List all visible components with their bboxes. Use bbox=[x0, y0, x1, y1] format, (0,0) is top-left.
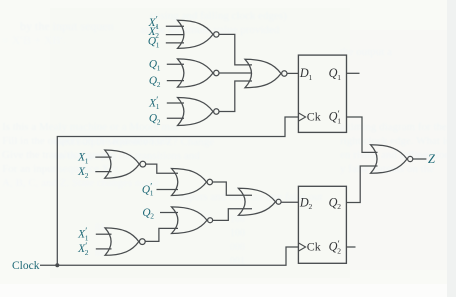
NOR gate G5 (X1 X2) bbox=[105, 150, 146, 178]
NOR gate G3 (X1' Q2) bbox=[178, 98, 220, 126]
wire G5 out to G6 top bbox=[146, 164, 178, 173]
NOR gate G6 bbox=[172, 169, 213, 196]
svg-text:2: 2 bbox=[85, 248, 89, 257]
flip-flop U1 (D1/Q1) bbox=[298, 55, 346, 132]
svg-text:000: 000 bbox=[230, 242, 245, 253]
label Q1 (G1 input) bbox=[148, 36, 160, 50]
svg-text:Clock: Clock bbox=[12, 260, 40, 272]
junction clock node bbox=[55, 263, 59, 267]
svg-text:1: 1 bbox=[337, 73, 341, 82]
svg-text:Q: Q bbox=[142, 184, 150, 196]
svg-text:2: 2 bbox=[337, 202, 341, 211]
wire G1 out to G4 top bbox=[219, 34, 252, 65]
svg-text:1: 1 bbox=[309, 73, 313, 82]
flip-flop U2 (D2/Q2) bbox=[298, 186, 346, 263]
svg-text:Z: Z bbox=[428, 152, 436, 166]
label D2 (U2 pin) bbox=[299, 195, 313, 211]
U2 clock triangle bbox=[298, 243, 305, 251]
wire G4 out to D1 bbox=[287, 72, 298, 74]
wire G3 input X1' stub bbox=[167, 102, 184, 104]
label Q2 (G7 input) bbox=[142, 207, 154, 221]
U1 clock triangle bbox=[298, 113, 305, 121]
wire clock branch to U1 Ck bbox=[57, 117, 298, 265]
label Q1 (U1 pin) bbox=[329, 66, 342, 82]
label X1' (G8 input) bbox=[77, 226, 89, 242]
svg-text:2: 2 bbox=[309, 202, 313, 211]
svg-text:2: 2 bbox=[150, 212, 154, 221]
wire Q1' to Z-gate top bbox=[347, 117, 378, 152]
svg-text:1: 1 bbox=[156, 41, 160, 50]
svg-text:the output a: the output a bbox=[340, 46, 392, 58]
wire G6 input Q1' stub bbox=[157, 189, 179, 191]
wire G8 input X1' stub bbox=[96, 233, 112, 235]
NOR gate G2 (Q1 Q2) bbox=[178, 59, 220, 87]
svg-text:Q: Q bbox=[142, 207, 150, 219]
svg-text:2: 2 bbox=[157, 80, 161, 89]
wire G7 input Q2 stub bbox=[160, 212, 178, 214]
svg-text:1: 1 bbox=[150, 189, 154, 198]
label Q1 (G2 input) bbox=[149, 59, 161, 73]
svg-text:so that we see the transitions: so that we see the transitions and bbox=[55, 150, 200, 162]
label Q2 (G2 input) bbox=[149, 75, 161, 89]
svg-text:01: 01 bbox=[95, 222, 105, 233]
svg-text:A, B, C, and Z. State changes: A, B, C, and Z. State changes occur bbox=[2, 177, 160, 189]
label X2' (G8 input) bbox=[77, 241, 89, 257]
svg-text:(rising and falling clock edge: (rising and falling clock edges) bbox=[150, 10, 287, 22]
svg-text:1: 1 bbox=[337, 116, 341, 125]
wire Q2' output stub bbox=[346, 246, 355, 248]
svg-text:1: 1 bbox=[85, 156, 89, 165]
NOR gate G7 bbox=[172, 207, 213, 234]
label Q2 (G3 input) bbox=[149, 113, 161, 127]
label X1' (G3 input) bbox=[148, 95, 160, 111]
svg-text:Q: Q bbox=[148, 36, 156, 48]
label Q1' (G6 input) bbox=[142, 181, 154, 197]
svg-text:D: D bbox=[299, 66, 309, 80]
wire Z output bbox=[413, 158, 427, 160]
wire Q1 output stub bbox=[347, 72, 360, 74]
wire G2 input Q1 stub bbox=[167, 63, 184, 65]
label X2 (G5 input) bbox=[77, 166, 89, 180]
svg-text:2: 2 bbox=[157, 118, 161, 127]
svg-text:1: 1 bbox=[156, 102, 160, 111]
wire G7 out to G9 bottom bbox=[212, 209, 252, 221]
svg-text:00: 00 bbox=[95, 248, 105, 259]
label D1 (U1 pin) bbox=[299, 66, 313, 82]
wire G1 input Q1 stub bbox=[166, 42, 184, 44]
svg-text:Ck: Ck bbox=[307, 110, 321, 124]
label Z output bbox=[428, 152, 436, 166]
label X1' (G1 input) bbox=[148, 15, 160, 31]
NOR gate G10 output Z bbox=[371, 145, 413, 174]
wire Q2 to Z-gate bottom bbox=[346, 166, 377, 203]
label X1 (G5 input) bbox=[77, 151, 89, 165]
NOR gate G4 (to D1) bbox=[245, 59, 287, 87]
wire G5 input X1 stub bbox=[95, 156, 111, 158]
label Q2' (U2 pin) bbox=[329, 239, 342, 255]
NOR gate G1 (X1' X2' Q1) bbox=[178, 20, 220, 48]
wire G1 input X2' stub bbox=[166, 34, 184, 36]
wire G6 out to G9 top bbox=[213, 182, 252, 195]
label X2' (G1 input) bbox=[148, 24, 160, 40]
wire G2 input Q2 stub bbox=[167, 80, 184, 82]
svg-text:D: D bbox=[299, 195, 309, 209]
svg-text:100: 100 bbox=[230, 228, 245, 239]
wire G5 input X2 stub bbox=[95, 171, 111, 173]
svg-text:by the input sequen: by the input sequen bbox=[20, 19, 114, 33]
label Q1' (U1 pin) bbox=[329, 109, 342, 125]
wire G3 out to G4 bottom bbox=[219, 81, 252, 112]
svg-text:Q: Q bbox=[149, 75, 157, 87]
wire G8 input X2' stub bbox=[96, 248, 112, 250]
wire G8 out to G7 bottom bbox=[145, 228, 178, 241]
svg-text:y false outputs on the: y false outputs on the bbox=[340, 163, 434, 175]
svg-text:Ck: Ck bbox=[307, 240, 321, 254]
svg-text:a timing diagram for the: a timing diagram for the bbox=[340, 121, 447, 133]
NOR gate G9 (to D2) bbox=[238, 188, 281, 215]
svg-text:Q: Q bbox=[149, 113, 157, 125]
wire clock rail bbox=[40, 247, 298, 265]
wire G3 input Q2 stub bbox=[167, 117, 184, 119]
label Q2 (U2 pin) bbox=[329, 195, 342, 211]
wire G1 input X1' stub bbox=[166, 25, 184, 27]
svg-text:right clock edge. What is: right clock edge. What is bbox=[340, 135, 450, 147]
wire G9 out to D2 bbox=[281, 201, 299, 203]
svg-text:2: 2 bbox=[337, 246, 341, 255]
svg-text:= X′B + XB′.: = X′B + XB′. bbox=[2, 33, 66, 47]
svg-text:For an input sequence X =: For an input sequence X = bbox=[2, 163, 118, 175]
NOR gate G8 (X1' X2') bbox=[105, 228, 145, 255]
svg-text:Q: Q bbox=[149, 59, 157, 71]
wire G2 out to G4 mid bbox=[219, 72, 252, 74]
svg-text:1: 1 bbox=[157, 64, 161, 73]
svg-text:2: 2 bbox=[85, 171, 89, 180]
svg-text:next output sequence for Z? Ch: next output sequence for Z? Change bbox=[55, 136, 214, 148]
